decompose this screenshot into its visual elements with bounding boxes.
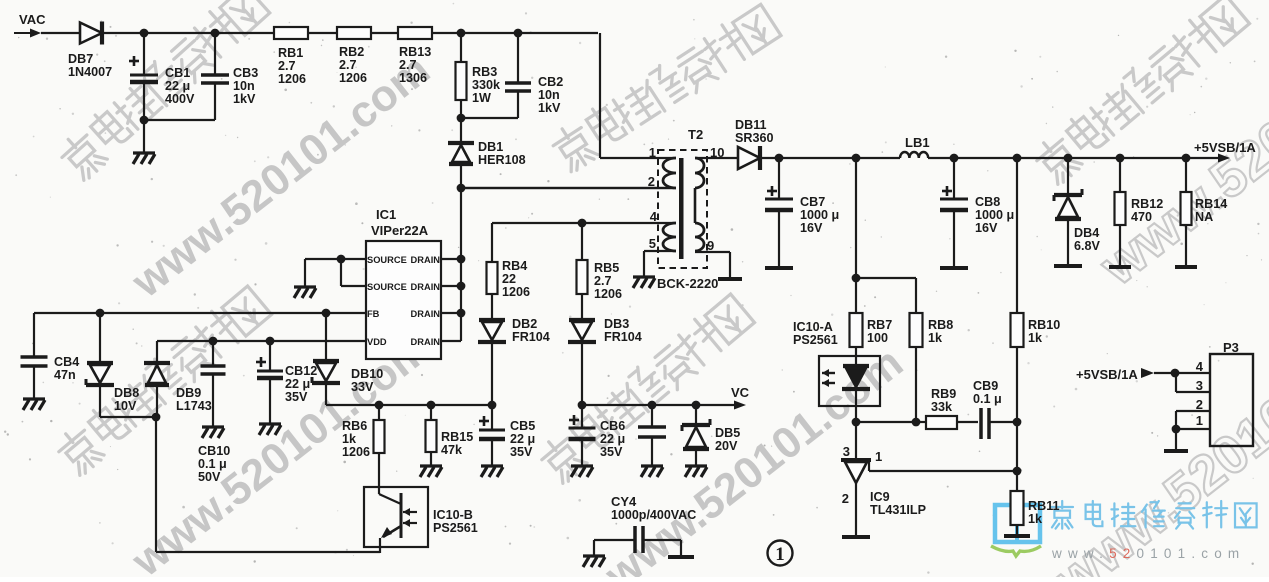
- svg-text:P3: P3: [1223, 340, 1239, 355]
- svg-text:35V: 35V: [600, 445, 623, 459]
- svg-text:DRAIN: DRAIN: [411, 255, 441, 265]
- svg-text:2: 2: [842, 491, 849, 506]
- svg-text:4: 4: [650, 209, 658, 224]
- svg-text:RB1: RB1: [278, 46, 303, 60]
- svg-text:2.7: 2.7: [399, 58, 417, 72]
- svg-text:RB2: RB2: [339, 45, 364, 59]
- svg-text:1000p/400VAC: 1000p/400VAC: [611, 508, 696, 522]
- svg-text:LB1: LB1: [905, 135, 930, 150]
- svg-text:SOURCE: SOURCE: [367, 255, 407, 265]
- svg-text:2.7: 2.7: [278, 59, 296, 73]
- svg-text:SOURCE: SOURCE: [367, 282, 407, 292]
- svg-text:1kV: 1kV: [233, 92, 256, 106]
- svg-text:RB9: RB9: [931, 387, 956, 401]
- svg-text:RB6: RB6: [342, 419, 367, 433]
- svg-text:1000 μ: 1000 μ: [800, 208, 839, 222]
- svg-text:10n: 10n: [233, 79, 255, 93]
- svg-text:2.7: 2.7: [339, 58, 357, 72]
- svg-text:22 μ: 22 μ: [165, 79, 190, 93]
- svg-text:3: 3: [1196, 378, 1203, 393]
- svg-text:CB10: CB10: [198, 444, 230, 458]
- svg-text:1kV: 1kV: [538, 101, 561, 115]
- svg-text:DB8: DB8: [114, 386, 139, 400]
- svg-text:1N4007: 1N4007: [68, 65, 112, 79]
- svg-text:1: 1: [775, 544, 785, 565]
- svg-text:0.1 μ: 0.1 μ: [198, 457, 227, 471]
- svg-text:IC1: IC1: [376, 207, 396, 222]
- svg-text:22 μ: 22 μ: [510, 432, 535, 446]
- svg-text:RB10: RB10: [1028, 318, 1060, 332]
- svg-text:1k: 1k: [1028, 512, 1043, 526]
- svg-text:1: 1: [649, 145, 656, 160]
- svg-text:FB: FB: [367, 309, 380, 319]
- svg-text:DB10: DB10: [351, 367, 383, 381]
- svg-text:9: 9: [707, 238, 714, 253]
- svg-text:4: 4: [1196, 359, 1204, 374]
- svg-text:www.520101.com: www.520101.com: [1051, 546, 1245, 561]
- svg-text:DB1: DB1: [478, 140, 503, 154]
- svg-text:VIPer22A: VIPer22A: [371, 223, 429, 238]
- svg-text:50V: 50V: [198, 470, 221, 484]
- svg-text:1206: 1206: [342, 445, 370, 459]
- svg-text:22 μ: 22 μ: [600, 432, 625, 446]
- svg-text:VDD: VDD: [367, 337, 387, 347]
- svg-text:DRAIN: DRAIN: [411, 282, 441, 292]
- svg-text:+5VSB/1A: +5VSB/1A: [1194, 140, 1256, 155]
- svg-text:6.8V: 6.8V: [1074, 239, 1101, 253]
- svg-text:1k: 1k: [928, 331, 943, 345]
- svg-text:PS2561: PS2561: [793, 333, 838, 347]
- svg-text:RB5: RB5: [594, 261, 619, 275]
- svg-text:1: 1: [1196, 413, 1203, 428]
- svg-text:400V: 400V: [165, 92, 195, 106]
- svg-text:CB9: CB9: [973, 379, 998, 393]
- svg-text:CB3: CB3: [233, 66, 258, 80]
- svg-text:CB8: CB8: [975, 195, 1000, 209]
- svg-text:1206: 1206: [339, 71, 367, 85]
- svg-text:20V: 20V: [715, 439, 738, 453]
- svg-text:35V: 35V: [285, 390, 308, 404]
- svg-text:CB1: CB1: [165, 66, 190, 80]
- svg-text:22 μ: 22 μ: [285, 377, 310, 391]
- svg-text:+5VSB/1A: +5VSB/1A: [1076, 367, 1138, 382]
- svg-text:RB4: RB4: [502, 259, 527, 273]
- svg-text:470: 470: [1131, 210, 1152, 224]
- svg-text:RB11: RB11: [1028, 499, 1060, 513]
- svg-text:DB11: DB11: [735, 118, 767, 132]
- svg-text:1k: 1k: [342, 432, 357, 446]
- svg-text:HER108: HER108: [478, 153, 526, 167]
- svg-text:1206: 1206: [502, 285, 530, 299]
- svg-text:10V: 10V: [114, 399, 137, 413]
- svg-text:FR104: FR104: [512, 330, 550, 344]
- svg-text:VC: VC: [731, 385, 750, 400]
- svg-text:10n: 10n: [538, 88, 560, 102]
- svg-text:SR360: SR360: [735, 131, 774, 145]
- svg-text:T2: T2: [688, 127, 703, 142]
- svg-text:1W: 1W: [472, 91, 491, 105]
- svg-text:100: 100: [867, 331, 888, 345]
- svg-text:CB5: CB5: [510, 419, 535, 433]
- svg-text:IC10-B: IC10-B: [433, 508, 473, 522]
- svg-text:330k: 330k: [472, 78, 501, 92]
- svg-text:IC9: IC9: [870, 490, 890, 504]
- svg-text:NA: NA: [1195, 210, 1213, 224]
- svg-text:DB5: DB5: [715, 426, 740, 440]
- svg-text:DRAIN: DRAIN: [411, 337, 441, 347]
- svg-text:16V: 16V: [800, 221, 823, 235]
- svg-text:DB3: DB3: [604, 317, 629, 331]
- svg-text:0.1 μ: 0.1 μ: [973, 392, 1002, 406]
- svg-text:BCK-2220: BCK-2220: [657, 276, 718, 291]
- svg-text:RB14: RB14: [1195, 197, 1227, 211]
- svg-text:1000 μ: 1000 μ: [975, 208, 1014, 222]
- svg-text:IC10-A: IC10-A: [793, 320, 833, 334]
- svg-text:L1743: L1743: [176, 399, 212, 413]
- svg-text:DB4: DB4: [1074, 226, 1099, 240]
- svg-text:CB4: CB4: [54, 355, 79, 369]
- svg-text:RB13: RB13: [399, 45, 431, 59]
- svg-text:RB12: RB12: [1131, 197, 1163, 211]
- svg-text:1306: 1306: [399, 71, 427, 85]
- svg-text:47n: 47n: [54, 368, 76, 382]
- svg-text:CB2: CB2: [538, 75, 563, 89]
- svg-text:33V: 33V: [351, 380, 374, 394]
- svg-text:2: 2: [1196, 397, 1203, 412]
- svg-text:1: 1: [875, 449, 882, 464]
- svg-text:DB2: DB2: [512, 317, 537, 331]
- svg-text:RB15: RB15: [441, 430, 473, 444]
- svg-text:RB8: RB8: [928, 318, 953, 332]
- svg-text:1206: 1206: [594, 287, 622, 301]
- svg-text:3: 3: [843, 444, 850, 459]
- svg-text:1206: 1206: [278, 72, 306, 86]
- svg-text:2: 2: [648, 174, 655, 189]
- svg-text:47k: 47k: [441, 443, 463, 457]
- svg-text:RB3: RB3: [472, 65, 497, 79]
- svg-text:DB7: DB7: [68, 52, 93, 66]
- svg-text:CB6: CB6: [600, 419, 625, 433]
- svg-text:CB7: CB7: [800, 195, 825, 209]
- svg-text:5: 5: [649, 236, 656, 251]
- svg-text:PS2561: PS2561: [433, 521, 478, 535]
- svg-text:22: 22: [502, 272, 516, 286]
- svg-text:1k: 1k: [1028, 331, 1043, 345]
- svg-text:35V: 35V: [510, 445, 533, 459]
- svg-text:TL431ILP: TL431ILP: [870, 503, 926, 517]
- svg-text:RB7: RB7: [867, 318, 892, 332]
- svg-text:16V: 16V: [975, 221, 998, 235]
- svg-text:CB12: CB12: [285, 364, 317, 378]
- svg-text:FR104: FR104: [604, 330, 642, 344]
- svg-text:VAC: VAC: [19, 12, 46, 27]
- svg-text:CY4: CY4: [611, 494, 637, 509]
- svg-text:2.7: 2.7: [594, 274, 612, 288]
- svg-text:DRAIN: DRAIN: [411, 309, 441, 319]
- svg-text:33k: 33k: [931, 400, 953, 414]
- svg-text:DB9: DB9: [176, 386, 201, 400]
